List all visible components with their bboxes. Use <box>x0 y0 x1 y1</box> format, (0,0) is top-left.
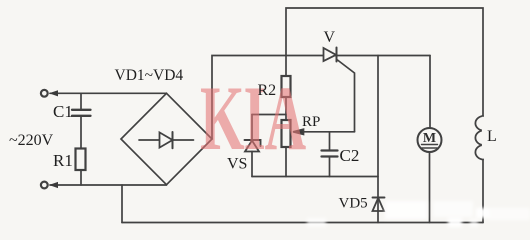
svg-text:V: V <box>324 29 336 46</box>
svg-text:C1: C1 <box>53 102 73 121</box>
svg-text:C2: C2 <box>340 146 360 165</box>
svg-text:VS: VS <box>227 156 247 173</box>
svg-text:RP: RP <box>302 114 320 130</box>
svg-text:R1: R1 <box>53 151 73 170</box>
svg-text:VD5: VD5 <box>339 196 368 212</box>
svg-text:VD1~VD4: VD1~VD4 <box>115 67 184 84</box>
svg-text:L: L <box>487 128 497 145</box>
svg-text:R2: R2 <box>258 82 277 99</box>
svg-text:~220V: ~220V <box>9 132 54 149</box>
